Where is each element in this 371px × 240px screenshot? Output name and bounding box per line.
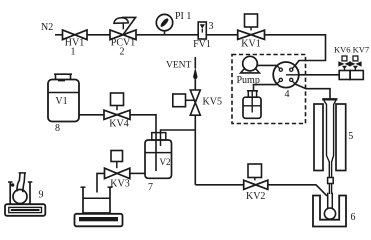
hotplate stirrer under flask 9 — [5, 204, 45, 216]
svg-text:5: 5 — [348, 131, 353, 142]
wire KV2 to trap flask — [268, 185, 327, 196]
valve KV1 — [238, 14, 265, 50]
wire V2 gas out to KV5 line — [161, 130, 196, 146]
svg-text:6: 6 — [351, 212, 356, 223]
flowmeter FV1 — [193, 21, 213, 50]
wire KV3 to beaker — [97, 173, 105, 192]
svg-text:KV3: KV3 — [110, 179, 129, 190]
svg-text:N2: N2 — [41, 22, 53, 33]
svg-text:V1: V1 — [55, 96, 67, 107]
valve KV7 — [349, 56, 361, 71]
wire FV1 to KV1 — [206, 34, 237, 36]
svg-text:KV5: KV5 — [203, 97, 222, 108]
furnace 5 — [314, 104, 353, 171]
wire KV5 line to KV2 — [195, 184, 243, 186]
wire V1 to KV4 — [79, 114, 104, 116]
valve KV5 with vent — [166, 57, 222, 115]
svg-text:KV1: KV1 — [241, 39, 260, 50]
trap flask in bath — [324, 193, 335, 220]
bottle reservoir under pump — [243, 91, 261, 118]
cold trap bath 6 — [313, 196, 356, 227]
svg-text:KV6 KV7: KV6 KV7 — [334, 45, 369, 55]
svg-text:1: 1 — [71, 47, 76, 58]
valve KV2 — [244, 164, 268, 202]
beaker on stirrer — [81, 187, 113, 213]
tank V1 item 8 — [48, 74, 79, 134]
wire rotary valve to furnace — [295, 84, 330, 99]
rotary valve 4 — [273, 62, 299, 100]
svg-text:9: 9 — [39, 190, 44, 201]
svg-text:KV2: KV2 — [246, 191, 265, 202]
valve HV1 — [63, 30, 88, 58]
wire PCV1 to FV1 — [136, 34, 198, 36]
wire KV1 to rotary valve — [265, 35, 326, 66]
wire KV3 to V2 — [130, 172, 145, 174]
svg-text:8: 8 — [55, 123, 60, 134]
wire KV5 down to KV2 line — [194, 115, 196, 185]
svg-text:7: 7 — [148, 182, 153, 193]
svg-text:V2: V2 — [160, 157, 171, 167]
wire N2 to HV1 — [55, 34, 63, 36]
wire HV1 to PCV1 — [87, 34, 110, 36]
valve KV4 — [104, 93, 130, 130]
svg-text:VENT: VENT — [166, 61, 192, 71]
svg-text:3: 3 — [209, 21, 214, 32]
valve KV6 — [338, 56, 350, 71]
pump P — [237, 56, 260, 86]
reactor tube in furnace — [322, 99, 337, 177]
svg-text:KV4: KV4 — [109, 119, 128, 130]
manifold boxes under KV6 KV7 — [339, 71, 363, 80]
svg-text:FV1: FV1 — [193, 39, 211, 50]
wire pump to rotary valve — [257, 64, 276, 66]
wire bottle to rotary valve — [254, 85, 277, 91]
svg-text:PI 1: PI 1 — [175, 11, 191, 22]
wire rotary valve to KV6 KV7 manifold — [299, 74, 339, 76]
svg-text:2: 2 — [120, 47, 125, 58]
wire KV4 to V2 dip tube — [130, 115, 156, 171]
hotplate stirrer under beaker — [75, 214, 123, 227]
valve PCV1 — [110, 17, 136, 57]
flask 9 on stirrer — [8, 173, 44, 204]
valve KV3 — [105, 151, 130, 190]
tube connector below furnace — [328, 178, 334, 195]
gauge PI1 — [156, 11, 191, 35]
bottle V2 item 7 — [145, 133, 172, 193]
svg-text:4: 4 — [285, 89, 290, 100]
dashed enclosure pump box — [232, 55, 306, 124]
